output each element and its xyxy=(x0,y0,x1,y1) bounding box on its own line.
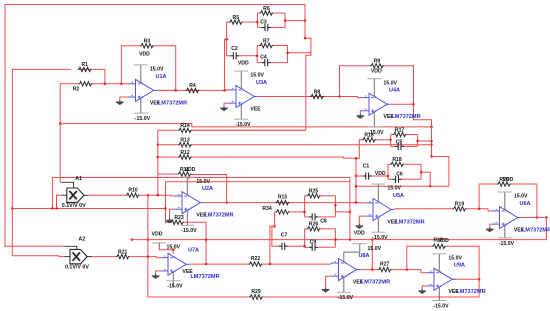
svg-text:-15.0V: -15.0V xyxy=(181,228,197,234)
junction R5/C2 xyxy=(226,38,228,40)
svg-text:LM7372MR: LM7372MR xyxy=(204,213,233,219)
svg-text:R3: R3 xyxy=(144,39,151,45)
R28 feedback left xyxy=(407,246,432,269)
svg-text:0.1V/V 0V: 0.1V/V 0V xyxy=(65,265,89,271)
U5A V+ bar xyxy=(371,183,385,185)
R2 left wire xyxy=(60,83,78,85)
op-amp U7A xyxy=(161,253,190,287)
junction R11/U2A out xyxy=(226,202,228,204)
resistor R14 xyxy=(178,128,192,132)
U4A V- bar xyxy=(367,126,381,128)
R6 box entry xyxy=(256,21,258,23)
v165 supply riser to R23/ground xyxy=(166,182,171,223)
junction C1 left xyxy=(355,175,357,177)
op-amp U6A xyxy=(492,192,521,238)
C7 right wire to box4 xyxy=(288,245,305,247)
U3A + input wire xyxy=(224,103,229,106)
svg-text:U1A: U1A xyxy=(156,74,167,80)
svg-text:R34: R34 xyxy=(262,206,272,212)
v372 down to R27 xyxy=(371,240,373,270)
resistor R1 xyxy=(78,67,92,71)
resistor R19 xyxy=(453,207,467,211)
jog xyxy=(227,38,229,40)
capacitor C1 xyxy=(363,172,372,179)
svg-text:VDD: VDD xyxy=(371,68,382,74)
U1A ground xyxy=(116,100,124,105)
junction R10 out xyxy=(147,194,149,196)
node to A1 in1 xyxy=(60,83,61,182)
svg-text:R19: R19 xyxy=(455,202,465,208)
svg-text:R2: R2 xyxy=(73,86,80,92)
U1A V- bar xyxy=(134,112,148,114)
parallel RC box R7/C4 xyxy=(257,46,287,63)
resistor R21 xyxy=(116,254,130,258)
resistor R9 xyxy=(370,64,384,68)
resistor R20 xyxy=(497,182,511,186)
R5 to box1 xyxy=(243,21,258,23)
junction R34/C7 xyxy=(274,225,276,227)
junction R3 tap xyxy=(120,83,122,85)
U6A V- bar xyxy=(498,237,512,239)
box1 exit wire xyxy=(285,20,305,22)
U2A V- bar xyxy=(180,224,194,226)
resistor R23 xyxy=(170,220,184,224)
resistor R28 xyxy=(432,244,446,248)
svg-text:U5A: U5A xyxy=(393,193,404,199)
svg-text:U2A: U2A xyxy=(202,186,213,192)
R7 box entry xyxy=(256,55,258,57)
R10 node to U2A in- xyxy=(148,194,175,197)
svg-text:15.0V: 15.0V xyxy=(196,179,210,185)
resistor R5 xyxy=(229,20,243,24)
R27 to U9A in- xyxy=(392,270,427,273)
R9 feedback left xyxy=(340,66,371,97)
capacitor C3 xyxy=(262,24,271,31)
svg-text:R1: R1 xyxy=(81,62,88,68)
junction A1 in2 xyxy=(55,207,57,209)
junction R12 node xyxy=(430,155,432,157)
svg-text:-15.0V: -15.0V xyxy=(499,241,515,247)
resistor R34 xyxy=(276,210,290,214)
resistor R12 xyxy=(178,155,192,159)
U1A out to R4 to U3A in- xyxy=(157,89,229,92)
svg-text:C9: C9 xyxy=(310,239,317,245)
svg-text:R25: R25 xyxy=(309,189,319,195)
R17 box exit xyxy=(417,140,419,142)
resistor R26 xyxy=(307,227,321,231)
svg-text:-15.0V: -15.0V xyxy=(235,122,251,128)
R21 to U7A in- xyxy=(130,257,161,258)
v206 to U7A out xyxy=(205,240,207,265)
svg-text:15.0V: 15.0V xyxy=(514,194,528,200)
vertical to U7A / R29 line xyxy=(147,195,149,297)
U9A V+ bar xyxy=(432,253,446,255)
junction U9A out xyxy=(478,278,480,280)
U9A + input wire xyxy=(422,286,426,289)
svg-text:VDD: VDD xyxy=(185,167,196,173)
svg-text:R22: R22 xyxy=(251,256,261,262)
svg-text:LM7372MR: LM7372MR xyxy=(361,280,390,286)
svg-text:15.0V: 15.0V xyxy=(448,256,462,262)
R14 line (short, joins v305) xyxy=(192,129,305,131)
svg-text:R13: R13 xyxy=(180,138,190,144)
capacitor C9 xyxy=(309,244,318,251)
svg-text:VDD: VDD xyxy=(152,232,163,238)
resistor R18 xyxy=(390,162,404,166)
R13 left wire xyxy=(158,144,178,146)
resistor R13 xyxy=(178,143,192,147)
junction feeder xyxy=(355,185,357,187)
U4A V+ bar xyxy=(367,78,381,80)
R29 right line xyxy=(263,296,479,298)
down to C2 xyxy=(227,39,231,56)
R6 box exit xyxy=(284,20,286,22)
resistor R17 xyxy=(393,132,407,136)
parallel RC box R18/C6 xyxy=(388,164,421,179)
svg-text:LM7372MR: LM7372MR xyxy=(395,219,424,225)
svg-text:15.0V: 15.0V xyxy=(368,246,382,252)
R23 right to down xyxy=(184,222,206,239)
svg-text:A2: A2 xyxy=(79,236,86,242)
R34 down to U7A out line xyxy=(270,212,275,264)
box R17C5 exit wire xyxy=(418,140,432,142)
svg-text:R18: R18 xyxy=(392,157,402,163)
R34 to box3 xyxy=(290,211,305,213)
U5A + input wire xyxy=(359,216,365,224)
svg-text:-15.0V: -15.0V xyxy=(372,235,388,241)
svg-text:-15.0V: -15.0V xyxy=(433,303,449,309)
box R18C6 exit wire xyxy=(421,172,430,186)
U2A out to R15 to U5A in- xyxy=(204,202,366,204)
op-amp U2A xyxy=(175,177,204,225)
svg-text:LM7372MR: LM7372MR xyxy=(190,274,219,280)
path down to U5A in- feeder xyxy=(356,157,449,187)
U4A ground xyxy=(356,114,364,119)
svg-text:VDD: VDD xyxy=(438,238,449,244)
op-amp U4A xyxy=(362,79,391,127)
R25 box entry xyxy=(304,211,306,213)
junction v148/bus xyxy=(147,239,149,241)
svg-text:LM7372MR: LM7372MR xyxy=(456,289,485,295)
junction feeder/U5A in- xyxy=(355,202,357,204)
svg-text:U3A: U3A xyxy=(256,80,267,86)
svg-text:R17: R17 xyxy=(395,127,405,133)
junction R13 left xyxy=(157,144,159,146)
R11 left wire xyxy=(158,173,178,175)
resistor R3 xyxy=(140,44,154,48)
U5A ground xyxy=(355,224,363,229)
U6A V+ bar xyxy=(498,191,512,193)
svg-text:R7: R7 xyxy=(263,38,270,44)
U3A out to R8 to U4A in- xyxy=(258,97,362,98)
resistor R7 xyxy=(259,43,273,47)
U5A V- bar xyxy=(371,231,385,233)
junction R13/C5 node xyxy=(430,140,432,142)
svg-text:R29: R29 xyxy=(251,289,261,295)
U3A ground xyxy=(220,106,228,111)
junction U6A out corner xyxy=(545,216,547,218)
U4A + input wire xyxy=(360,111,361,114)
U1A V+ bar xyxy=(134,64,148,66)
R1 out to minus node xyxy=(92,69,105,83)
R12 line to v356 xyxy=(192,157,356,158)
A1 out to R10 xyxy=(88,194,126,196)
svg-text:A1: A1 xyxy=(75,176,82,182)
svg-text:C4: C4 xyxy=(260,55,267,61)
C7 left branch xyxy=(272,226,279,246)
R18 box exit xyxy=(420,171,422,173)
multiplier A1 xyxy=(62,182,89,202)
U7A ground xyxy=(152,274,160,279)
feeder segment xyxy=(355,176,357,186)
A1 in2 drop xyxy=(57,195,62,208)
R16 left jog down xyxy=(356,140,362,176)
junction line A/bus xyxy=(51,207,53,209)
resistor R27 xyxy=(378,267,392,271)
svg-text:15.0V: 15.0V xyxy=(250,73,264,79)
U6A output bus feedback xyxy=(132,218,547,240)
v305 jog and down to R14 xyxy=(192,38,311,130)
R13 line to right xyxy=(192,144,432,146)
resistor R29 xyxy=(249,295,263,299)
resistor bank left vertical xyxy=(157,130,159,174)
svg-text:R10: R10 xyxy=(128,187,138,193)
R26 box exit xyxy=(334,239,336,241)
feeder drop xyxy=(355,186,357,202)
capacitor C5 xyxy=(395,143,404,150)
svg-text:R4: R4 xyxy=(189,83,196,89)
line A left drop xyxy=(51,178,53,209)
svg-text:C6: C6 xyxy=(396,172,403,178)
parallel RC box R17/C5 xyxy=(391,135,418,147)
U9A ground xyxy=(418,289,426,294)
junction R5 branch tap xyxy=(223,89,225,91)
junction feedforward tap xyxy=(59,123,61,125)
junction bus/v206 xyxy=(205,239,207,241)
svg-text:R9: R9 xyxy=(374,59,381,65)
resistor R11 xyxy=(178,172,192,176)
svg-text:U7A: U7A xyxy=(188,248,199,254)
svg-text:U9A: U9A xyxy=(454,263,465,269)
bank vertical down to R10 line xyxy=(157,174,159,195)
R9 right + U4A out down-path xyxy=(384,66,432,157)
U5A out to R19 xyxy=(395,208,453,210)
junction R1/R2 xyxy=(104,83,106,85)
U4A out stub wire xyxy=(391,103,414,105)
U9A V- bar xyxy=(432,300,446,302)
U2A ground xyxy=(166,218,174,223)
svg-text:LM7372MR: LM7372MR xyxy=(391,114,420,120)
svg-text:15.0V: 15.0V xyxy=(383,80,397,86)
inner loop R1/A1/A2 node xyxy=(12,69,70,256)
supply line A xyxy=(52,177,350,179)
junction R12 left xyxy=(157,156,159,158)
svg-text:-15.0V: -15.0V xyxy=(338,295,354,301)
op-amp U9A xyxy=(427,254,456,301)
jog to U8A in- xyxy=(330,263,332,264)
capacitor C6 xyxy=(393,176,402,183)
C2 to box2 xyxy=(239,55,257,57)
U2A V+ bar xyxy=(180,176,194,178)
resistor R25 xyxy=(307,194,321,198)
svg-text:VDD: VDD xyxy=(375,171,386,177)
R3 feedback left xyxy=(121,46,140,84)
svg-text:U8A: U8A xyxy=(359,253,370,259)
capacitor C4 xyxy=(262,59,271,66)
junction v206/U7A out xyxy=(205,263,207,265)
U7A V+ jog wire xyxy=(159,248,173,254)
svg-text:VEE: VEE xyxy=(250,106,261,112)
resistor R15 xyxy=(276,200,290,204)
feedforward wire to v431 xyxy=(60,124,431,127)
op-amp U1A xyxy=(128,65,157,113)
svg-text:15.0V: 15.0V xyxy=(150,67,164,73)
junction R18C6 exit xyxy=(429,185,431,187)
parallel RC box R25/C8 xyxy=(305,196,336,217)
U8A V+ bar xyxy=(353,243,367,245)
R16 to box5 xyxy=(376,139,391,141)
junction R13 line xyxy=(430,144,432,146)
R26 box entry xyxy=(304,245,306,247)
resistor R22 xyxy=(249,262,263,266)
svg-text:LM7372MR: LM7372MR xyxy=(522,227,550,233)
outer feedback loop top xyxy=(5,5,305,247)
R10 out xyxy=(140,194,148,196)
svg-text:-15.0V: -15.0V xyxy=(135,116,151,122)
svg-text:0.1V/V 0V: 0.1V/V 0V xyxy=(62,203,86,209)
R1 lead span xyxy=(78,68,92,70)
svg-text:R6: R6 xyxy=(263,6,270,12)
capacitor C7 xyxy=(279,243,288,250)
capacitor C2 xyxy=(230,52,239,59)
svg-text:VDD: VDD xyxy=(503,177,514,183)
svg-text:R15: R15 xyxy=(278,194,288,200)
U8A ground xyxy=(322,287,330,292)
svg-text:U4A: U4A xyxy=(389,88,400,94)
junction bus/v372 xyxy=(371,239,373,241)
U3A V- bar xyxy=(234,118,248,120)
R34 left wire xyxy=(274,211,277,213)
junction U7A supply xyxy=(172,249,174,251)
junction bus left end xyxy=(131,239,133,241)
box2 exit wire xyxy=(288,52,311,54)
U7A V- bar xyxy=(166,280,180,282)
R22 to U8A in- xyxy=(263,263,332,265)
junction U1A out xyxy=(175,89,177,91)
resistor R2 xyxy=(79,82,93,86)
svg-text:C1: C1 xyxy=(363,164,370,170)
junction R21 out xyxy=(147,256,149,258)
box3 exit jog xyxy=(335,205,350,212)
junction bank/U2A in- xyxy=(157,194,159,196)
junction jog xyxy=(304,37,306,39)
junction R12/R16/v356 xyxy=(355,157,357,159)
multiplier A2 xyxy=(65,246,92,263)
op-amp U5A xyxy=(366,184,395,232)
resistor R6 xyxy=(259,11,273,15)
resistor R8 xyxy=(310,94,324,98)
svg-text:U6A: U6A xyxy=(520,201,531,207)
svg-text:R12: R12 xyxy=(180,150,190,156)
junction v270/R22 line xyxy=(269,263,271,265)
op-amp U8A xyxy=(331,244,360,293)
svg-text:R8: R8 xyxy=(314,89,321,95)
U6A out wire xyxy=(521,217,546,219)
svg-text:C5: C5 xyxy=(396,139,403,145)
svg-text:R26: R26 xyxy=(309,222,319,228)
parallel RC box R26/C9 xyxy=(305,229,336,248)
resistor R10 xyxy=(126,193,140,197)
R12 left wire xyxy=(158,156,178,158)
svg-text:R23: R23 xyxy=(174,215,184,221)
svg-text:C7: C7 xyxy=(281,233,288,239)
junction v349 xyxy=(349,211,351,213)
junction feedforward/v431 xyxy=(430,126,432,128)
svg-text:-15.0V: -15.0V xyxy=(368,130,384,136)
R20 feedback left xyxy=(479,184,497,209)
junction U2A V+ stem xyxy=(188,176,190,178)
svg-text:VDD: VDD xyxy=(238,60,249,66)
A2 out to R21 xyxy=(90,256,116,258)
supply line B xyxy=(166,181,350,183)
junction inner loop to A1 bus xyxy=(11,207,13,209)
junction R27 left xyxy=(371,269,373,271)
junction R9 tap xyxy=(338,95,340,97)
capacitor C8 xyxy=(309,213,318,220)
R11 feedback to U2A out xyxy=(192,175,227,203)
svg-text:LM7372MR: LM7372MR xyxy=(158,100,187,106)
svg-text:VDD: VDD xyxy=(354,231,365,237)
R7 box exit xyxy=(286,52,288,54)
U8A + input wire xyxy=(326,276,331,287)
junction bus/v349 xyxy=(349,239,351,241)
svg-text:R27: R27 xyxy=(380,261,390,267)
U1A + input wire xyxy=(120,97,128,100)
junction bus/v165 xyxy=(164,207,166,209)
junction R20 tap xyxy=(478,208,480,210)
R17 box entry xyxy=(390,139,392,141)
resistor R4 xyxy=(186,88,200,92)
junction U4A out xyxy=(412,103,414,105)
U7A + input wire xyxy=(156,271,161,274)
U7A out to R22 xyxy=(190,263,249,265)
svg-text:C2: C2 xyxy=(231,46,238,52)
U8A V- bar xyxy=(337,291,351,293)
junction R6C3 exit xyxy=(304,20,306,22)
bus to v165 xyxy=(12,208,165,210)
R20 feedback right xyxy=(511,184,537,218)
U7A V+ bar xyxy=(152,242,166,244)
resistor R16 xyxy=(362,138,376,142)
svg-text:VDD: VDD xyxy=(139,52,150,58)
R28 feedback right and down to R29 xyxy=(446,246,479,297)
svg-text:15.0V: 15.0V xyxy=(387,186,401,192)
R25 box exit xyxy=(334,204,336,206)
riser to R5/C2 net xyxy=(225,39,227,90)
vertical 349 xyxy=(349,178,351,240)
up to R5 xyxy=(227,22,229,39)
U6A + input wire xyxy=(490,224,492,227)
svg-text:C3: C3 xyxy=(260,20,267,26)
junction xyxy=(536,216,538,218)
parallel RC box R6/C3 xyxy=(257,13,285,28)
U8A out to R27 xyxy=(360,269,378,271)
svg-text:R14: R14 xyxy=(180,123,190,129)
R2 out to U1A minus xyxy=(93,83,129,85)
C1 right wire to box6 xyxy=(372,175,388,177)
R18 box entry xyxy=(387,175,389,177)
R19 to U6A in- xyxy=(467,209,493,211)
